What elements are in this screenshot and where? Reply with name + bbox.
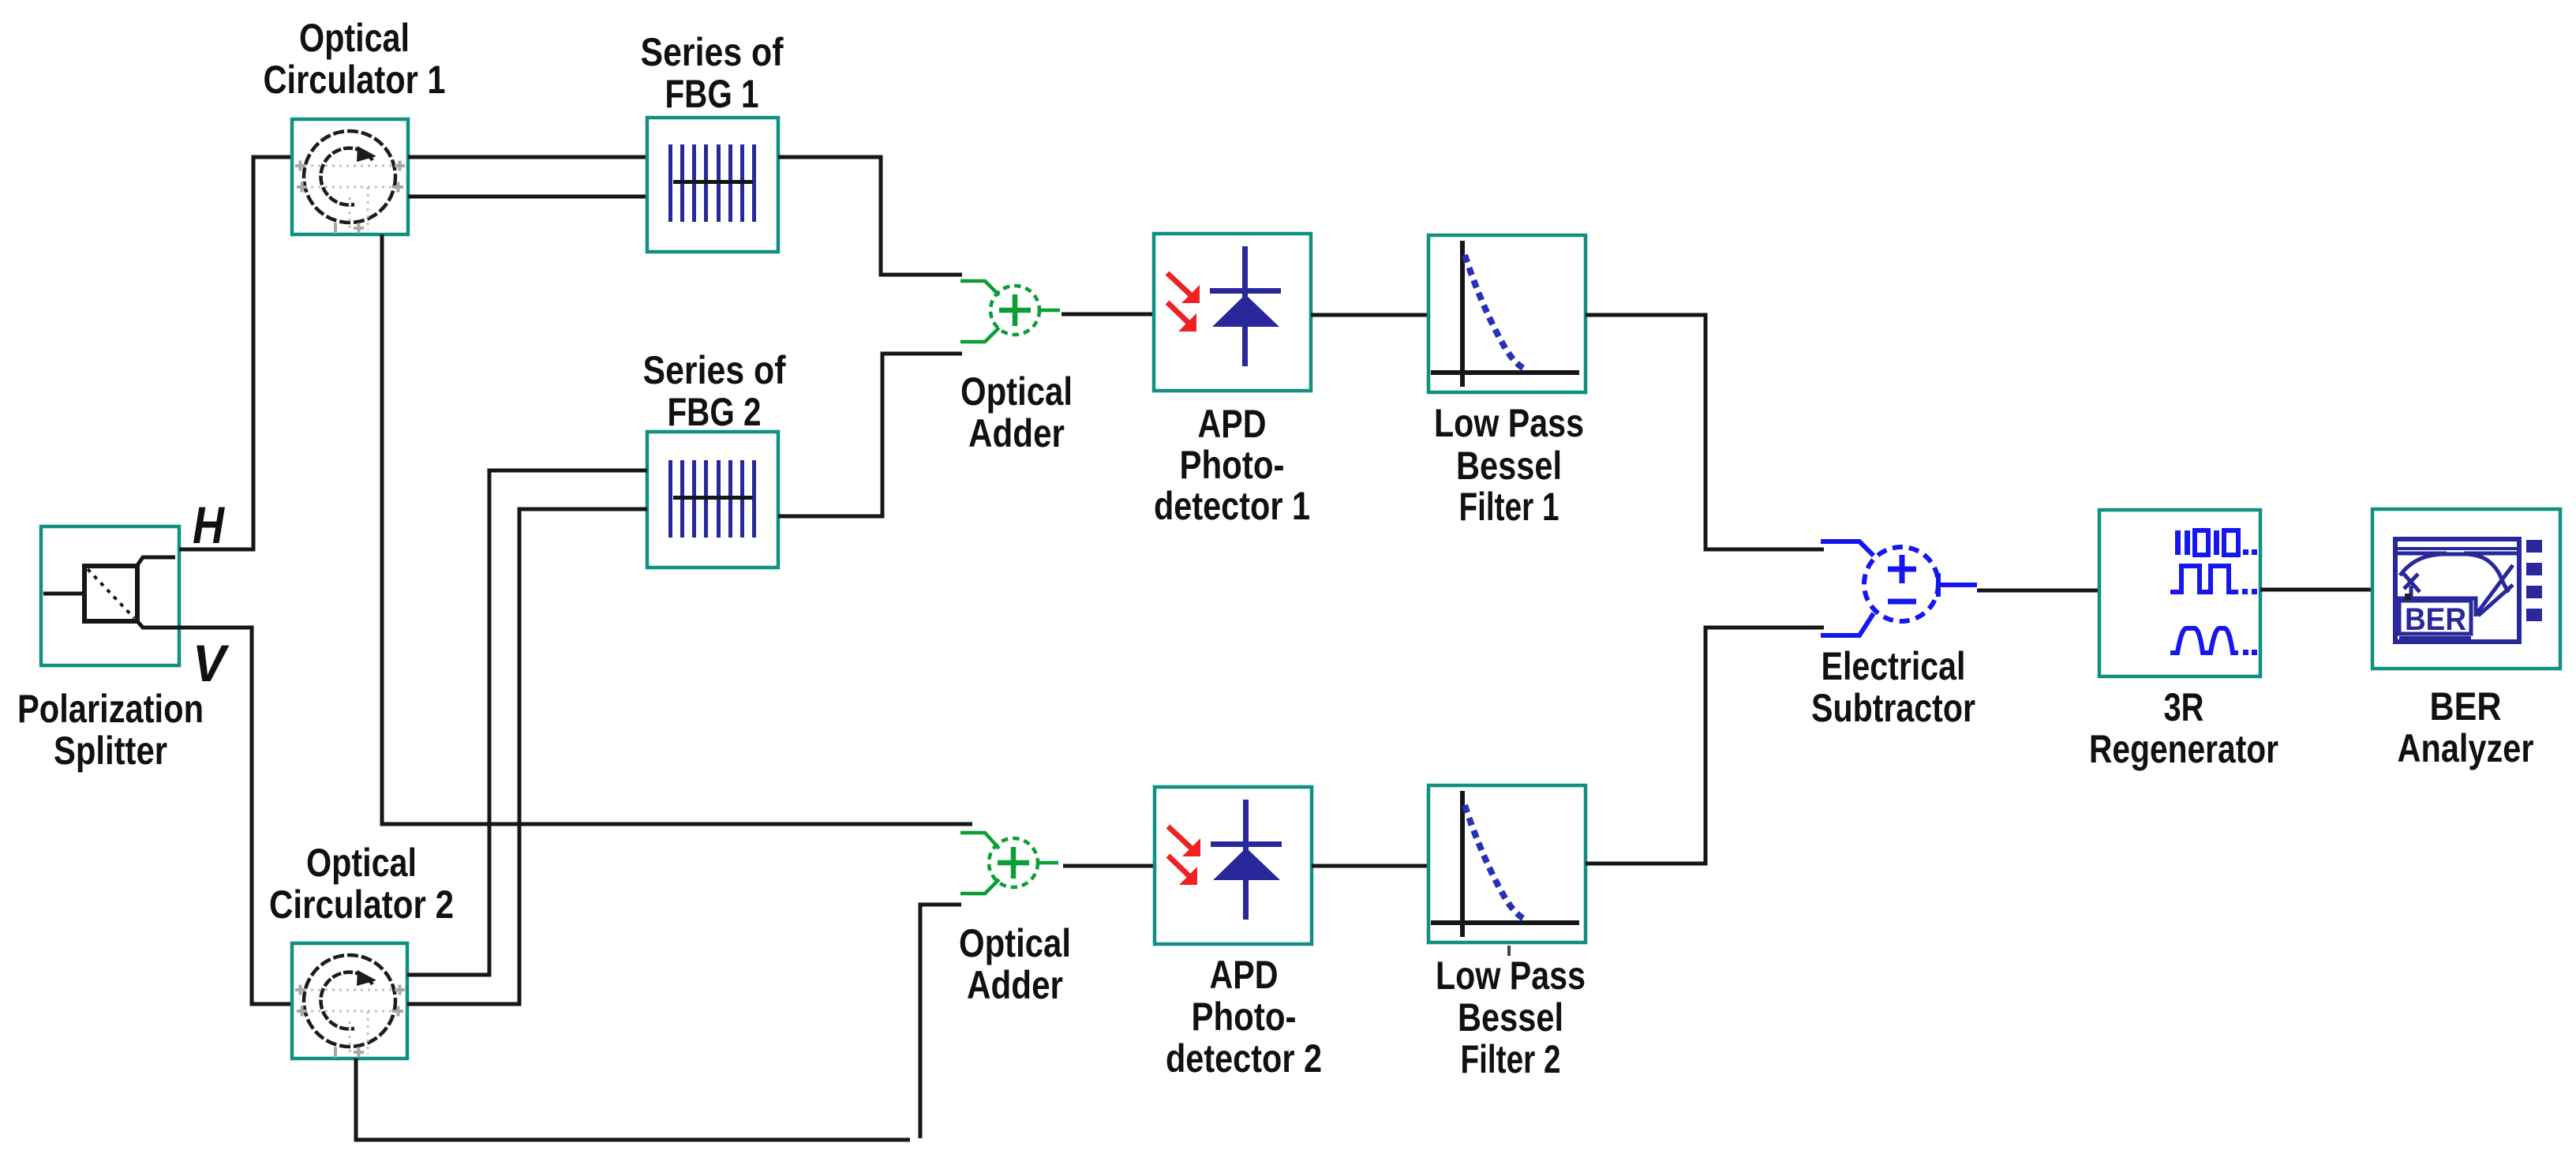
svg-text:Regenerator: Regenerator	[2089, 727, 2278, 771]
svg-text:Photo-: Photo-	[1180, 443, 1285, 487]
svg-text:Bessel: Bessel	[1456, 444, 1562, 488]
label Optical Adder 1	[960, 369, 1073, 455]
label Optical Circulator 1	[264, 16, 446, 102]
svg-text:Splitter: Splitter	[54, 729, 167, 773]
wire FBG2 to adder1 bottom input	[778, 354, 962, 516]
svg-text:Optical: Optical	[960, 369, 1073, 414]
svg-text:Photo-: Photo-	[1192, 995, 1297, 1039]
svg-text:Subtractor: Subtractor	[1811, 686, 1975, 730]
wire adder1 to APD1	[1061, 313, 1154, 317]
wire circulator2 bottom long run	[356, 1058, 910, 1140]
svg-text:Optical: Optical	[299, 16, 410, 60]
svg-text:Low Pass: Low Pass	[1436, 954, 1586, 998]
svg-text:APD: APD	[1210, 953, 1279, 997]
wire circulator1 to FBG1 lower	[408, 195, 647, 199]
label Low Pass Bessel Filter 1	[1434, 401, 1584, 529]
wire circulator2 to FBG2 upper	[407, 470, 647, 975]
wire circulator1 to FBG1 upper	[408, 155, 647, 159]
wire Bessel2 to subtractor bottom input	[1586, 628, 1824, 864]
svg-text:Circulator 1: Circulator 1	[264, 58, 446, 102]
wire Bessel1 to subtractor top input	[1586, 315, 1824, 549]
series of FBG 1	[647, 118, 778, 252]
wire V: splitter to circulator 2	[175, 628, 292, 1004]
svg-text:Filter 2: Filter 2	[1461, 1037, 1561, 1081]
svg-text:Series of: Series of	[641, 30, 784, 74]
label Polarization Splitter	[17, 687, 204, 773]
wire riser to adder2 bottom input	[920, 905, 961, 1138]
label APD Photo-detector 1	[1154, 402, 1310, 528]
wire circulator1 bottom to adder2 top input	[382, 234, 972, 824]
optical adder 1	[960, 281, 1060, 342]
wire FBG1 to adder1 top input	[778, 157, 962, 275]
polarization splitter PS1	[41, 526, 179, 665]
optical circulator 2	[292, 943, 407, 1058]
optical adder 2	[960, 833, 1058, 894]
node V label	[193, 634, 230, 692]
wire adder2 to APD2	[1063, 864, 1155, 868]
svg-text:APD: APD	[1198, 402, 1267, 446]
wire splitter input	[43, 592, 85, 596]
svg-text:V: V	[193, 634, 230, 692]
node H label	[193, 496, 225, 554]
series of FBG 2	[647, 432, 778, 568]
label APD Photo-detector 2	[1166, 953, 1322, 1081]
wire circulator2 to FBG2 lower	[407, 509, 647, 1004]
label BER Analyzer	[2398, 684, 2534, 770]
electrical subtractor	[1821, 541, 1977, 635]
BER analyzer	[2372, 509, 2560, 669]
svg-text:Filter 1: Filter 1	[1459, 485, 1559, 529]
svg-text:FBG 2: FBG 2	[668, 390, 762, 434]
label Optical Circulator 2	[269, 841, 454, 927]
svg-text:Bessel: Bessel	[1458, 995, 1563, 1040]
low pass bessel filter 2	[1428, 785, 1586, 956]
svg-text:3R: 3R	[2164, 685, 2204, 729]
label 3R Regenerator	[2089, 685, 2278, 771]
svg-text:BER: BER	[2405, 602, 2466, 637]
svg-text:detector 2: detector 2	[1166, 1036, 1322, 1081]
svg-text:detector 1: detector 1	[1154, 484, 1310, 528]
APD photodetector 1	[1154, 234, 1311, 391]
wire APD1 to Bessel1	[1311, 313, 1428, 317]
optical circulator 1	[292, 119, 408, 234]
3R regenerator	[2099, 510, 2260, 676]
wire H: splitter to circulator 1	[179, 157, 292, 549]
svg-text:BER: BER	[2430, 684, 2502, 729]
svg-text:Adder: Adder	[967, 963, 1063, 1007]
svg-text:Analyzer: Analyzer	[2398, 726, 2534, 770]
svg-text:Polarization: Polarization	[17, 687, 204, 731]
svg-text:FBG 1: FBG 1	[665, 72, 759, 116]
label Series of FBG 1	[641, 30, 784, 116]
label Optical Adder 2	[959, 921, 1071, 1007]
svg-text:Low Pass: Low Pass	[1434, 401, 1584, 445]
label Series of FBG 2	[643, 348, 786, 434]
svg-text:Electrical: Electrical	[1822, 644, 1966, 688]
svg-text:Circulator 2: Circulator 2	[269, 882, 454, 927]
svg-text:H: H	[193, 496, 225, 554]
svg-text:Optical: Optical	[959, 921, 1071, 965]
wire subtractor to 3R regenerator	[1977, 589, 2099, 593]
label Low Pass Bessel Filter 2	[1436, 954, 1586, 1081]
svg-text:Series of: Series of	[643, 348, 786, 392]
wire APD2 to Bessel2	[1312, 864, 1428, 868]
APD photodetector 2	[1155, 787, 1312, 944]
low pass bessel filter 1	[1428, 235, 1586, 392]
svg-text:Optical: Optical	[306, 841, 417, 885]
label Electrical Subtractor	[1811, 644, 1975, 730]
svg-text:Adder: Adder	[968, 411, 1065, 455]
wire 3R regenerator to BER analyzer	[2260, 588, 2372, 592]
